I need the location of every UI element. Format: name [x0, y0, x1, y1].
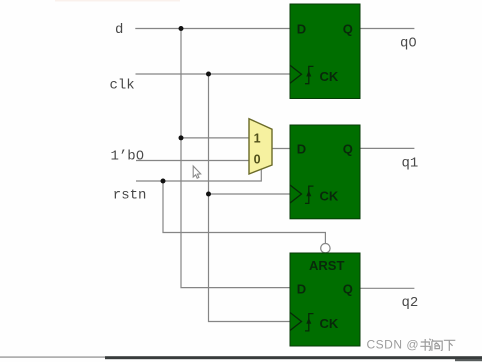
watermark glyph shu — [420, 339, 430, 351]
svg-text:d: d — [115, 22, 123, 38]
svg-text:0: 0 — [254, 152, 261, 166]
wire rstn to U3 ARST bubble — [163, 181, 325, 244]
zero-dot cover for q0 — [412, 40, 414, 44]
U3 rising-edge symbol — [305, 314, 314, 331]
svg-text:Q: Q — [343, 281, 353, 296]
zero-dot cover for 1'b0 — [139, 153, 141, 157]
svg-text:1: 1 — [254, 131, 261, 145]
wire rstn — [136, 169, 261, 181]
mouse cursor — [193, 166, 201, 178]
junction clk to U2 CK — [206, 192, 211, 197]
svg-text:q1: q1 — [402, 155, 419, 171]
flip-flop U3 — [290, 253, 360, 346]
svg-text:ARST: ARST — [309, 258, 344, 273]
wire q2 — [360, 287, 414, 289]
wire 1'b0 to mux input 0 — [136, 160, 249, 162]
svg-text:CSDN @: CSDN @ — [367, 337, 420, 351]
wire mux output to U2 D — [272, 148, 290, 150]
junction d to mux 1 — [179, 135, 184, 140]
svg-text:D: D — [297, 22, 306, 37]
svg-text:D: D — [297, 141, 306, 156]
svg-text:CK: CK — [320, 69, 339, 84]
junction on d wire — [179, 26, 184, 31]
svg-text:Q: Q — [343, 22, 353, 37]
svg-text:D: D — [297, 281, 306, 296]
svg-text:clk: clk — [110, 78, 135, 94]
U2 clock chevron — [290, 185, 302, 203]
wire q0 — [360, 28, 414, 30]
zero-dot cover for mux 0 — [257, 157, 259, 160]
svg-text:q0: q0 — [400, 36, 417, 52]
U2 rising-edge symbol — [305, 186, 314, 203]
wire d vertical to U3 D — [181, 29, 290, 288]
svg-text:CK: CK — [320, 316, 339, 331]
flip-flop U2 — [290, 125, 360, 219]
U1 clock chevron — [290, 65, 302, 83]
wire d — [135, 28, 290, 30]
svg-text:rstn: rstn — [113, 188, 147, 204]
U3 clock chevron — [290, 313, 302, 331]
wire d branch to mux input 1 — [181, 137, 249, 139]
flip-flop U1 — [290, 4, 360, 99]
junction on clk wire — [206, 72, 211, 77]
wire clk — [136, 73, 291, 75]
wire q1 — [360, 147, 414, 149]
svg-text:1’b0: 1’b0 — [111, 148, 145, 164]
wire clk branch to U2 CK — [209, 193, 291, 195]
wire clk vertical to U3 CK — [209, 74, 291, 322]
svg-text:q2: q2 — [402, 295, 419, 311]
mux M1 — [249, 119, 272, 174]
watermark glyph ge — [432, 339, 442, 351]
junction on rstn wire — [161, 179, 166, 184]
bottom frame line — [0, 356, 105, 358]
M1 body — [249, 119, 272, 174]
U1 rising-edge symbol — [305, 66, 314, 83]
svg-text:Q: Q — [343, 141, 353, 156]
watermark glyph xia — [444, 340, 456, 351]
svg-text:CK: CK — [320, 189, 339, 204]
U3 ARST bubble — [321, 244, 330, 253]
